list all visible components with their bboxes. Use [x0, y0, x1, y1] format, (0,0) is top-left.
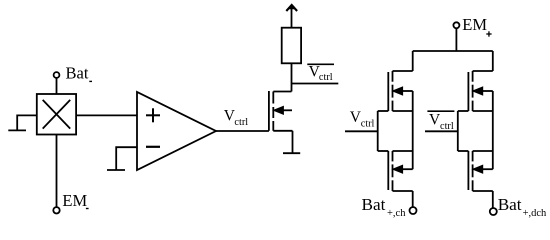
label Bat+,dch [498, 195, 547, 219]
svg-text:Bat: Bat [362, 195, 386, 214]
svg-text:ctrl: ctrl [234, 117, 248, 128]
wire left branch common source [412, 111, 414, 151]
wire right branch gate bus [457, 111, 459, 151]
wire M3 drain to Bat+,ch terminal [412, 191, 414, 207]
transistor M4 (right branch, top NMOS) [458, 71, 493, 111]
transistor M3 (left branch, bottom NMOS, mirrored) [378, 151, 413, 191]
label Bat- [66, 63, 89, 82]
transistor M1 (middle NMOS) [269, 91, 293, 131]
svg-text:EM: EM [462, 15, 487, 34]
wire right branch drain riser [492, 51, 494, 71]
svg-text:ctrl: ctrl [361, 119, 375, 130]
wire multiplier left to ground [17, 115, 37, 130]
resistor R1 [282, 28, 301, 64]
svg-text:+,dch: +,dch [523, 208, 547, 219]
terminal Bat+,dch (open circle) [490, 208, 497, 215]
label Vctrl-bar (right branch) [429, 111, 454, 132]
op-amp U2 triangle [137, 92, 216, 170]
wire op-amp inverting input [116, 147, 137, 170]
wire Bat- stem [56, 78, 58, 94]
terminal Bat+,ch (open circle) [410, 207, 417, 214]
wire M5 drain to Bat+,dch terminal [492, 191, 494, 208]
label Vctrl (op-amp output) [224, 108, 249, 128]
wire net Vctrl-bar (from drain node, to the right) [292, 83, 339, 85]
terminal Bat- (open circle) [54, 72, 60, 78]
terminal EM- (open circle) [53, 207, 59, 213]
transistor M5 (right branch, bottom NMOS, mirrored) [458, 151, 493, 191]
wire M1 source to ground [292, 131, 294, 153]
wire Vctrl into left gate bus [345, 130, 378, 132]
overline of middle Vctrl-bar [307, 63, 334, 65]
ground (op-amp inverting input) [107, 169, 125, 171]
op-amp minus sign [146, 146, 160, 148]
label EM- [62, 191, 87, 210]
overline of right Vctrl-bar [427, 110, 454, 112]
wire EM- stem [56, 135, 58, 208]
subscript plus of EM+ [486, 31, 491, 36]
label Vctrl-bar (middle) [309, 64, 333, 84]
svg-text:Bat: Bat [66, 63, 89, 82]
svg-text:Bat: Bat [498, 195, 522, 214]
svg-text:EM: EM [62, 191, 87, 210]
label Vctrl (left branch) [350, 109, 375, 130]
terminal EM+ (open circle) [453, 22, 459, 28]
wire left branch gate bus [377, 111, 379, 151]
wire multiplier output to op-amp + input [76, 114, 137, 116]
label EM+ [462, 15, 487, 34]
svg-text:ctrl: ctrl [319, 72, 333, 83]
transistor M2 (left branch, top NMOS) [378, 71, 413, 111]
wire top bus [413, 50, 493, 52]
ground (M1 source) [283, 152, 300, 154]
subscript minus of Bat- [89, 80, 92, 82]
supply arrow (top of resistor) [286, 5, 297, 28]
op-amp plus sign [146, 108, 160, 122]
wire resistor bottom to drain of M1 [291, 63, 293, 91]
multiplier U1 (box with X) [37, 94, 76, 135]
wire right branch common source [492, 111, 494, 151]
wire EM+ stem [455, 28, 457, 51]
label Bat+,ch [362, 195, 407, 219]
subscript minus of EM- [86, 208, 89, 210]
wire left branch drain riser [412, 51, 414, 71]
wire Vctrl-bar into right gate bus [425, 130, 458, 132]
svg-text:ctrl: ctrl [440, 121, 454, 132]
svg-text:+,ch: +,ch [387, 208, 406, 219]
ground (left of multiplier) [8, 129, 26, 131]
wire op-amp output to gate of M1 (node Vctrl) [216, 130, 269, 132]
